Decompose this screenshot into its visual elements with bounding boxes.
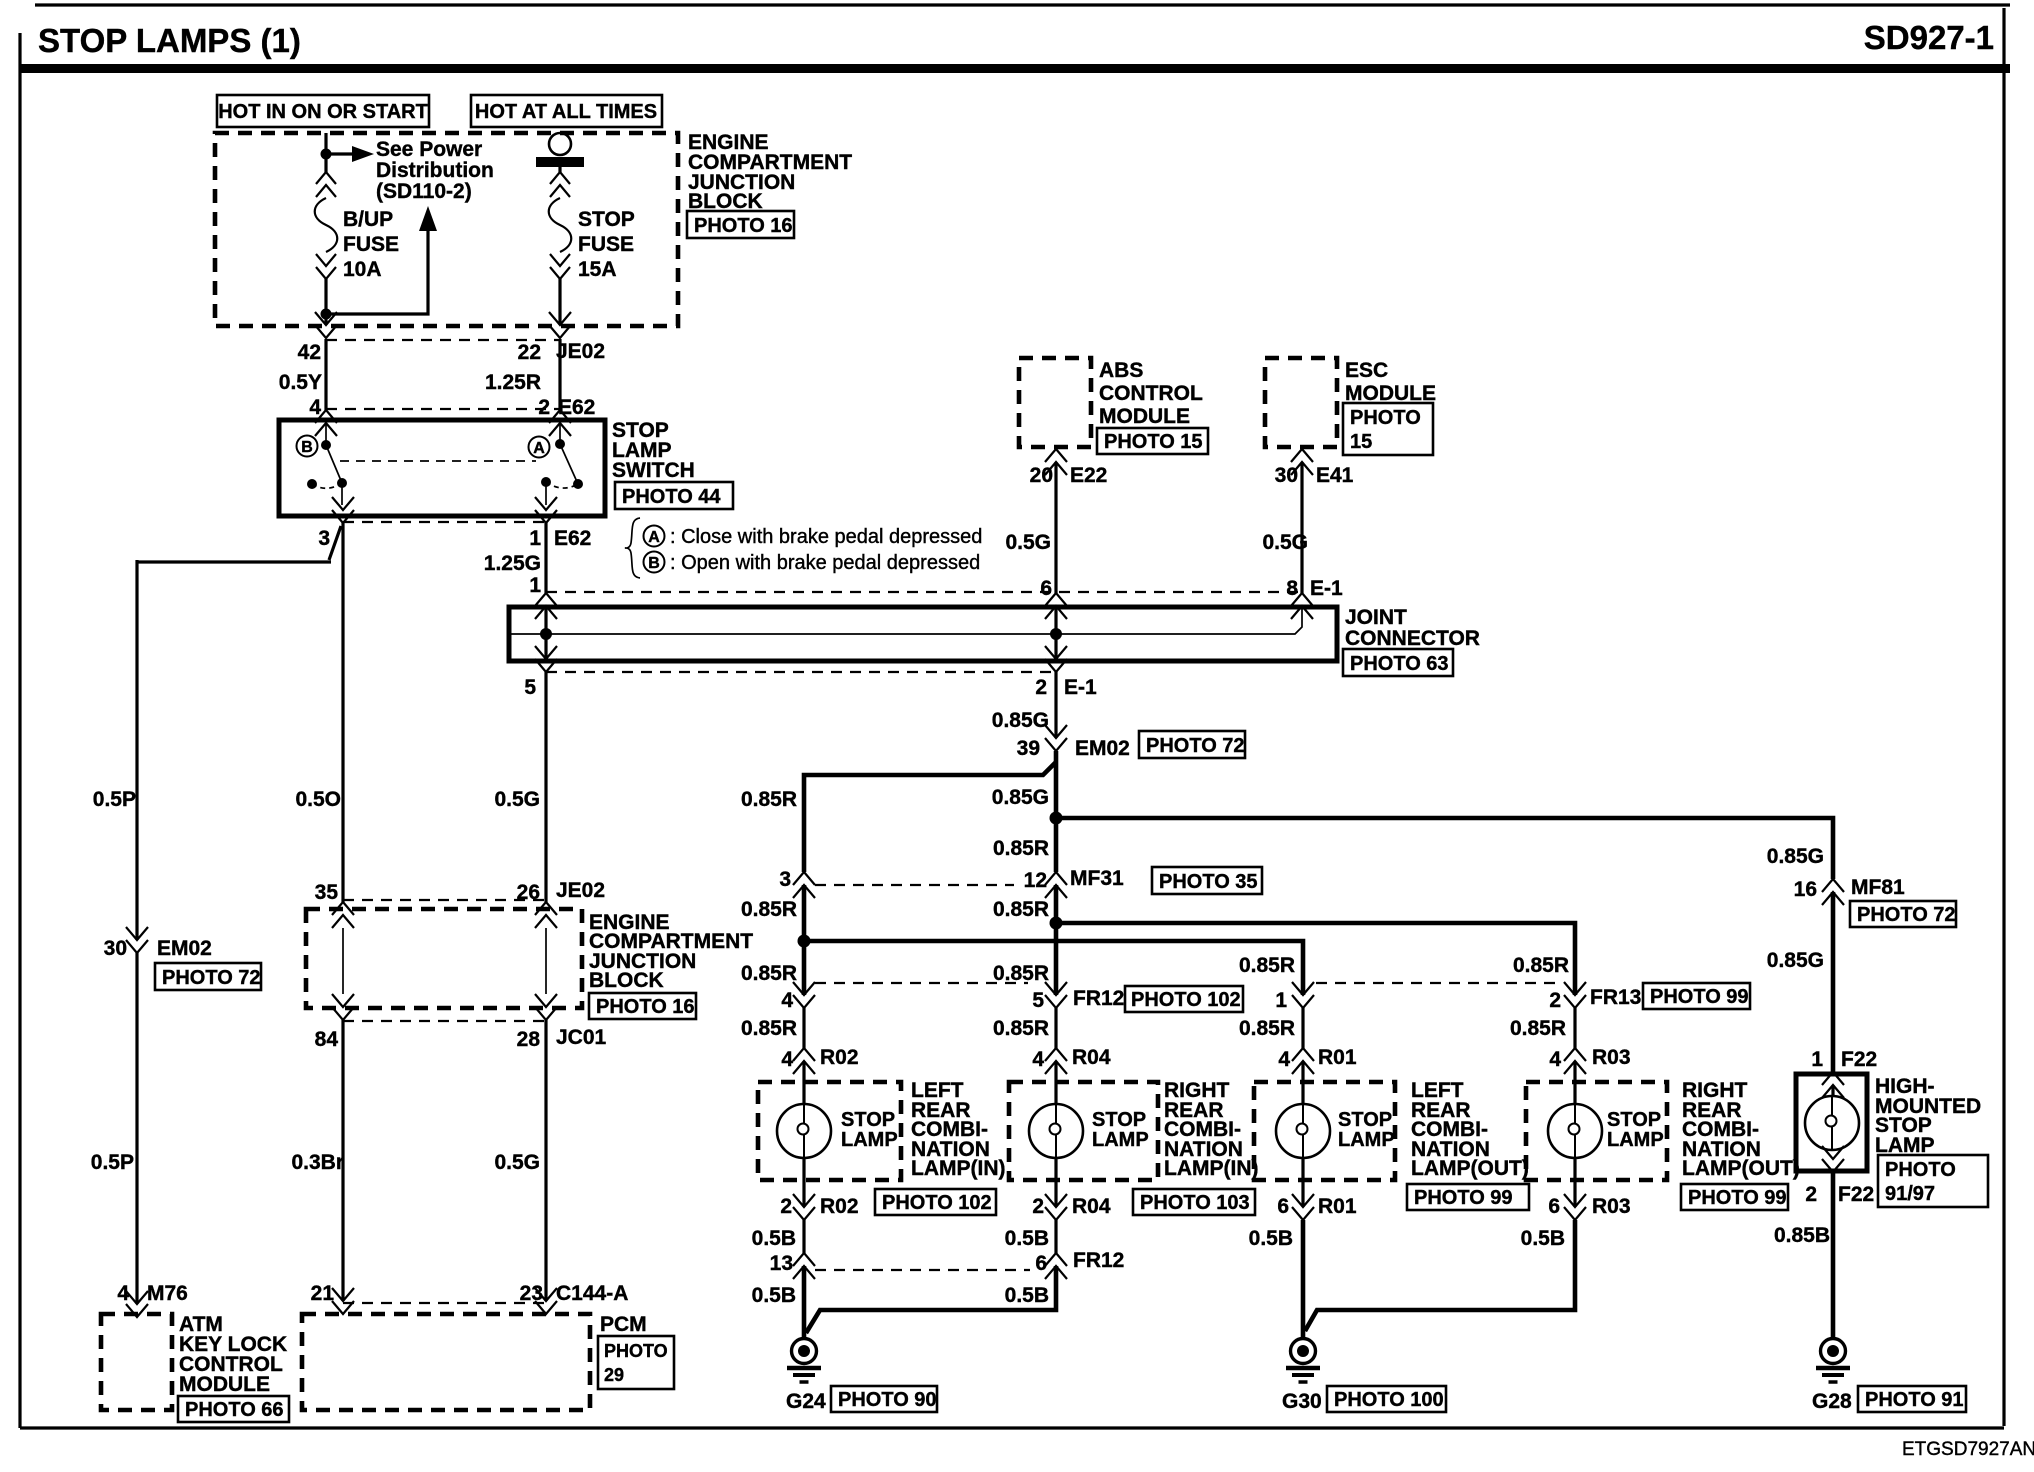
right page border [2002,8,2005,1426]
wire F22 to ground G28 [1831,1172,1836,1338]
wire 0.5O vertical from pin3 [341,522,344,902]
svg-text:0.85R: 0.85R [1239,954,1295,977]
connector line E-1 (bottom) [546,671,1056,673]
connector E22 pin 20 fork [1045,449,1067,475]
wire trunk MF31 to FR12 [1054,885,1059,995]
HOT IN ON OR START label box [217,95,429,127]
stop lamp 4 bulb [1548,1104,1602,1158]
wire return to power distribution arrow [326,230,428,314]
svg-text:JOINT: JOINT [1345,606,1407,629]
svg-text:20: 20 [1030,464,1053,487]
connector EM02 pin 30 fork [126,927,148,953]
svg-text:4: 4 [781,989,793,1012]
svg-text:29: 29 [604,1365,624,1385]
svg-text:PHOTO 35: PHOTO 35 [1159,871,1258,893]
wire bar to fuse [558,167,561,172]
svg-text:EM02: EM02 [157,937,212,960]
node FR13 branch [1050,917,1063,930]
connector line JC01 [343,1020,546,1022]
label STOP FUSE 15A [578,208,635,281]
svg-text:PHOTO 103: PHOTO 103 [1140,1192,1250,1214]
svg-text:CONTROL: CONTROL [1099,382,1203,405]
wire to contact A [559,423,561,444]
svg-text:2: 2 [1805,1183,1817,1206]
legend A circle [644,526,665,547]
EM02 PHOTO 72 box [1139,731,1245,758]
connector line FR12 (ground side) [815,1269,1030,1271]
svg-text:FR12: FR12 [1073,1249,1124,1272]
svg-text:84: 84 [315,1028,339,1051]
connector JE02 pin 22 exit fork [549,312,571,338]
connector pin 13 fork [793,1253,815,1279]
high-mounted stop lamp name [1875,1075,1981,1157]
svg-text:MODULE: MODULE [1345,382,1436,405]
ABS control module dashed box [1019,358,1091,447]
ground G28 [1816,1339,1850,1383]
svg-text:PHOTO 102: PHOTO 102 [882,1192,992,1214]
ABS control module name [1099,359,1203,428]
high-mounted stop lamp bulb [1805,1096,1859,1150]
left rear combination lamp (IN) dashed box [758,1082,901,1180]
svg-text:12: 12 [1024,869,1047,892]
connector E-1 pin 8 fork [1291,593,1313,619]
node bottom tap [321,309,332,320]
svg-text:91/97: 91/97 [1885,1183,1935,1205]
svg-text:PCM: PCM [600,1313,647,1336]
svg-text:PHOTO: PHOTO [1350,407,1421,429]
wire R03 to ground G30 [1305,1220,1575,1331]
wire 1.25R [558,339,561,410]
wire FR12-6 to ground G24 [806,1266,1056,1333]
svg-text:2: 2 [1549,989,1561,1012]
svg-text:FR13: FR13 [1590,986,1641,1009]
wire R04 to FR12-6 fork [1054,1220,1057,1253]
svg-text:LAMP(OUT): LAMP(OUT) [1682,1157,1800,1180]
wire col1 MF31 to FR12 [802,885,807,995]
svg-text:0.85G: 0.85G [992,786,1049,809]
svg-text:2: 2 [1032,1195,1044,1218]
svg-text:0.5P: 0.5P [91,1151,134,1174]
wire lamp2 to R04 [1054,1158,1057,1207]
svg-text:PHOTO 100: PHOTO 100 [1334,1389,1444,1411]
svg-text:BLOCK: BLOCK [688,190,763,213]
svg-text:0.85R: 0.85R [741,898,797,921]
label B/UP FUSE 10A [343,208,399,281]
svg-text:4: 4 [117,1282,129,1305]
G30 PHOTO 100 box [1327,1386,1446,1412]
bottom page border [20,1426,2004,1429]
G24 PHOTO 90 box [831,1386,937,1412]
svg-text:SWITCH: SWITCH [612,459,695,482]
wire 0.5G down from joint pin 5 [544,672,547,902]
svg-text:0.5B: 0.5B [752,1284,796,1307]
stop lamp 3 bulb [1276,1104,1330,1158]
svg-text:0.5Y: 0.5Y [279,371,322,394]
svg-text:LAMP(IN): LAMP(IN) [911,1157,1005,1180]
connector E62 pin 1 exit fork [535,497,557,523]
legend B circle [644,552,665,573]
svg-text:0.5G: 0.5G [1262,531,1308,554]
connector E62 pin 1/3 line (bottom) [343,521,546,523]
svg-text:MODULE: MODULE [179,1373,270,1396]
connector JE02 pin 26 fork [535,902,557,928]
wire R02 to ground G24 [802,1266,807,1338]
connector E-1 pin 2 fork [1045,646,1067,672]
svg-text:PHOTO: PHOTO [604,1341,668,1361]
wire into high-mounted bulb [1831,1085,1834,1096]
svg-text:EM02: EM02 [1075,737,1130,760]
wire 0.5G from ABS [1054,462,1057,593]
connector line C144-A [343,1302,546,1304]
fuse B/UP FUSE 10A [315,172,338,279]
svg-text:13: 13 [770,1252,793,1275]
svg-text:(SD110-2): (SD110-2) [376,180,472,203]
svg-text:0.5B: 0.5B [752,1227,796,1250]
engine compartment junction block (mid) name [589,911,753,992]
wire lamp4 to R03 [1573,1158,1576,1207]
svg-text:6: 6 [1035,1252,1047,1275]
svg-text:STOP: STOP [1338,1109,1392,1131]
svg-text:PHOTO 72: PHOTO 72 [1146,735,1245,757]
wire FR12 to R02 [802,1008,805,1048]
svg-text:LAMP: LAMP [1875,1134,1935,1157]
connector line JE02 [326,339,560,341]
svg-text:0.85R: 0.85R [1239,1017,1295,1040]
connector E-1 pin 1 fork [535,593,557,619]
high-mounted stop lamp box [1796,1074,1867,1171]
connector FR12 pin 6 fork [1045,1253,1067,1279]
svg-text:LAMP: LAMP [1092,1129,1149,1151]
svg-text:0.5G: 0.5G [1005,531,1051,554]
svg-text:15A: 15A [578,258,617,281]
svg-text:R02: R02 [820,1046,859,1069]
svg-text:See Power: See Power [376,138,482,161]
wire lamp3 to R01 [1301,1158,1304,1207]
left rear combination lamp (IN) name [911,1079,1005,1180]
svg-text:35: 35 [315,881,339,904]
connector line FR12 [815,982,1028,984]
svg-text:16: 16 [1794,878,1817,901]
svg-text:1: 1 [529,527,541,550]
svg-text:F22: F22 [1838,1183,1874,1206]
wire left horizontal run [137,560,331,563]
engine compartment junction block (top) dashed box [215,133,678,326]
ESC module name [1345,359,1436,405]
svg-text:LAMP(IN): LAMP(IN) [1164,1157,1258,1180]
wire FR12 to R01 [1301,1008,1304,1048]
joint connector name [1345,606,1480,650]
svg-text:STOP LAMPS (1): STOP LAMPS (1) [38,22,301,59]
svg-text:5: 5 [1032,989,1044,1012]
ESC PHOTO 15 box [1343,403,1433,455]
contact label A [529,437,550,458]
junction block internal wire right [545,928,547,994]
left rear combination lamp (OUT) name [1411,1079,1529,1180]
svg-text:HOT IN ON OR START: HOT IN ON OR START [218,101,428,123]
switch name STOP LAMP SWITCH [612,419,695,482]
svg-text:PHOTO 16: PHOTO 16 [596,996,695,1018]
node col1 branch to R01 [798,935,811,948]
node joint right [1050,628,1062,640]
svg-text:6: 6 [1548,1195,1560,1218]
svg-text:30: 30 [1275,464,1298,487]
svg-text:2: 2 [538,396,550,419]
svg-text:PHOTO 102: PHOTO 102 [1131,989,1241,1011]
connector R02 pin 2 fork [793,1194,815,1220]
connector E62 pin 3 exit fork [332,497,354,523]
svg-text:G28: G28 [1812,1390,1852,1413]
svg-text:30: 30 [104,937,127,960]
FR12 PHOTO 102 box [1125,986,1243,1012]
connector JC01 pin 28 fork [535,994,557,1020]
svg-text:B: B [648,555,660,572]
svg-text:PHOTO 90: PHOTO 90 [838,1389,937,1411]
svg-text:STOP: STOP [1607,1109,1661,1131]
wire EM02 to branch network trunk [1054,751,1059,872]
svg-text:1.25R: 1.25R [485,371,541,394]
ground G30 [1286,1339,1320,1383]
svg-text:39: 39 [1017,737,1040,760]
svg-text:R04: R04 [1072,1195,1111,1218]
node joint left [540,628,552,640]
svg-text:4: 4 [1549,1048,1561,1071]
wire into stop lamp 4 [1573,1061,1576,1104]
wire branch to left stop lamp column [804,762,1056,872]
svg-text:4: 4 [781,1048,793,1071]
wire lamp1 to R02 [802,1158,805,1207]
svg-text:FR12: FR12 [1073,987,1124,1010]
junction block (mid) PHOTO 16 box [589,993,696,1019]
svg-text:LAMP(OUT): LAMP(OUT) [1411,1157,1529,1180]
wire to contact B [325,423,327,445]
svg-text:0.5G: 0.5G [494,1151,540,1174]
svg-text:3: 3 [779,868,791,891]
junction block internal wire left [342,928,344,994]
arrow to See Power Distribution [326,146,374,162]
ESC module dashed box [1265,358,1337,447]
PCM dashed box [302,1314,590,1410]
svg-text:A: A [533,440,545,457]
svg-text:R02: R02 [820,1195,859,1218]
connector E41 pin 30 fork [1291,449,1313,475]
wire B/UP fuse to block exit [324,279,327,325]
svg-text:0.85R: 0.85R [741,1017,797,1040]
G28 PHOTO 91 box [1858,1386,1966,1412]
stop fuse supply circle [549,133,571,155]
connector JE02 pin 35 fork [332,902,354,928]
stop lamp 3 label [1338,1109,1395,1151]
svg-text:0.85B: 0.85B [1774,1224,1830,1247]
note See Power Distribution (SD110-2) [376,138,494,203]
lamp3 PHOTO 99 box [1407,1184,1529,1210]
svg-text:PHOTO 16: PHOTO 16 [694,215,793,237]
title separator bar [19,64,2010,73]
connector line E-1 (top) [546,591,1302,593]
contact A fixed dot [555,439,565,449]
svg-text:0.85R: 0.85R [993,837,1049,860]
svg-text:PHOTO: PHOTO [1885,1159,1956,1181]
svg-text:HOT AT ALL TIMES: HOT AT ALL TIMES [475,101,657,123]
wire pin6 through joint [1054,606,1057,659]
wire into stop lamp 3 [1301,1061,1304,1104]
svg-text:STOP: STOP [1092,1109,1146,1131]
svg-text:0.85G: 0.85G [1767,845,1824,868]
joint connector bus line [511,606,1302,634]
svg-text:R01: R01 [1318,1046,1357,1069]
svg-text:B/UP: B/UP [343,208,393,231]
connector EM02 pin 39 fork [1045,725,1067,751]
fuse STOP FUSE 15A [549,172,572,279]
svg-text:MF81: MF81 [1851,876,1905,899]
right rear combination lamp (OUT) dashed box [1526,1082,1667,1180]
left rear combination lamp (OUT) dashed box [1254,1082,1395,1180]
svg-text:23: 23 [520,1282,543,1305]
svg-text:28: 28 [517,1028,541,1051]
svg-text:21: 21 [311,1282,335,1305]
joint PHOTO 63 box [1343,649,1453,676]
ATM module name [179,1313,287,1396]
lamp2 PHOTO 103 box [1133,1189,1255,1215]
connector F22 pin 2 fork [1822,1146,1844,1172]
svg-text:0.5B: 0.5B [1005,1227,1049,1250]
wire 1.25G down to joint connector [544,523,547,593]
svg-text:G24: G24 [786,1390,826,1413]
svg-text:1.25G: 1.25G [484,552,541,575]
connector R04 pin 2 fork [1045,1194,1067,1220]
connector FR12 pin 4 fork [793,982,815,1008]
high-mounted PHOTO 91/97 box [1878,1155,1988,1207]
right rear combination lamp (OUT) name [1682,1079,1800,1180]
svg-text:F22: F22 [1841,1048,1877,1071]
switch arm A [560,444,578,484]
svg-text:1: 1 [529,574,541,597]
svg-text:6: 6 [1040,577,1052,600]
svg-text:MODULE: MODULE [1099,405,1190,428]
legend brace [625,518,640,578]
connector R04 pin 4 fork [1045,1048,1067,1074]
lamp1 PHOTO 102 box [875,1189,996,1215]
wire FR12 to R04 [1054,1008,1057,1048]
wire into stop lamp 2 [1054,1061,1057,1104]
svg-text:A: A [648,529,660,546]
connector E62 pin 2 entry fork [549,410,571,436]
connector R01 pin 6 fork [1292,1194,1314,1220]
svg-text:R01: R01 [1318,1195,1357,1218]
wire R02 to 13 fork [802,1220,805,1253]
contact B open dot [307,479,317,489]
svg-text:0.85R: 0.85R [993,898,1049,921]
svg-text:1: 1 [1275,989,1287,1012]
svg-text:R03: R03 [1592,1195,1631,1218]
connector MF31 pin 12 fork [1045,872,1067,898]
svg-text:ESC: ESC [1345,359,1388,382]
svg-text:PHOTO 15: PHOTO 15 [1104,431,1203,453]
wire 0.5Y [324,339,327,410]
svg-text:M76: M76 [147,1282,188,1305]
svg-text:0.85R: 0.85R [1513,954,1569,977]
connector line FR13 [1316,982,1562,984]
svg-text:4: 4 [1032,1048,1044,1071]
svg-text:0.85R: 0.85R [993,1017,1049,1040]
svg-text:15: 15 [1350,431,1372,453]
svg-text:E22: E22 [1070,464,1107,487]
connector R01 pin 4 fork [1292,1048,1314,1074]
contact label B [297,436,318,457]
connector FR13 pin 2 fork [1564,982,1586,1008]
contact B moving dot [337,478,347,488]
connector line E62 (top) [326,408,560,410]
svg-text:42: 42 [298,341,321,364]
connector FR12 pin 1 fork [1292,982,1314,1008]
svg-text:R03: R03 [1592,1046,1631,1069]
svg-text:4: 4 [1278,1048,1290,1071]
svg-text:PHOTO 91: PHOTO 91 [1865,1389,1964,1411]
svg-text:0.5G: 0.5G [494,788,540,811]
svg-text:ETGSD7927AN: ETGSD7927AN [1902,1439,2034,1460]
svg-text:STOP: STOP [578,208,635,231]
right rear combination lamp (IN) name [1164,1079,1258,1180]
connector FR12 pin 5 fork [1045,982,1067,1008]
svg-text:JE02: JE02 [556,879,605,902]
ATM key lock control module dashed box [101,1314,172,1410]
HOT AT ALL TIMES label box [471,95,662,127]
ABS PHOTO 15 box [1097,428,1208,454]
connector MF31 pin 3 fork [793,872,815,898]
connector line JE02 (mid) [343,899,546,901]
wire 0.5G from ESC [1300,462,1303,593]
wire R01 to ground G30 [1301,1220,1306,1338]
svg-text:FUSE: FUSE [578,233,634,256]
svg-text:0.5B: 0.5B [1005,1284,1049,1307]
wire pin1 through joint [544,606,547,659]
MF31 PHOTO 35 box [1152,867,1262,894]
wire 0.5P left vertical [135,560,138,940]
svg-text:R04: R04 [1072,1046,1111,1069]
stop fuse supply bar [536,157,584,167]
stop lamp 1 bulb [777,1104,831,1158]
wire branch to R01 column [804,941,1303,995]
svg-text:0.85R: 0.85R [993,962,1049,985]
arrowhead up [419,206,437,231]
svg-text:6: 6 [1277,1195,1289,1218]
svg-text:PHOTO 63: PHOTO 63 [1350,653,1449,675]
ATM PHOTO 66 box [178,1396,289,1422]
svg-text:: Close with brake pedal depre: : Close with brake pedal depressed [670,526,982,548]
wire 0.3Br [341,1020,344,1301]
svg-text:Distribution: Distribution [376,159,494,182]
connector E62 pin 4 entry fork [315,410,337,436]
svg-text:LAMP: LAMP [1338,1129,1395,1151]
engine compartment junction block PHOTO 16 box [687,211,794,238]
right rear combination lamp (IN) dashed box [1009,1082,1158,1180]
node high-mount branch [1050,812,1063,825]
wire 0.5P lower [135,953,138,1304]
connector C144-A pin 23 fork [535,1288,557,1314]
connector R03 pin 4 fork [1564,1048,1586,1074]
svg-text:0.85G: 0.85G [1767,949,1824,972]
svg-text:FUSE: FUSE [343,233,399,256]
connector MF81 pin 16 fork [1822,879,1844,905]
page frame top rule [35,3,2010,6]
FR13 PHOTO 99 box [1643,983,1750,1009]
svg-text:0.85R: 0.85R [741,788,797,811]
stop lamp 2 label [1092,1109,1149,1151]
stop lamp 2 bulb [1029,1104,1083,1158]
svg-text:PHOTO 66: PHOTO 66 [185,1399,284,1421]
left page border [18,33,21,1428]
svg-text:G30: G30 [1282,1390,1322,1413]
svg-text:4: 4 [309,396,321,419]
